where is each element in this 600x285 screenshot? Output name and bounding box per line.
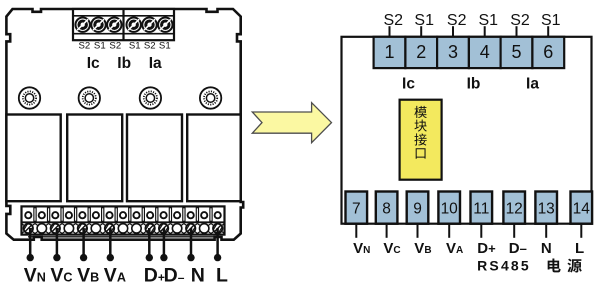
wire D- (left) <box>163 228 166 257</box>
case screw boss 4 <box>200 87 221 108</box>
svg-text:D+: D+ <box>477 240 496 257</box>
node dot N <box>187 254 194 261</box>
svg-text:S2: S2 <box>384 12 404 29</box>
svg-text:S1: S1 <box>479 12 499 29</box>
case screw boss 3 <box>140 87 161 108</box>
node dot VC <box>53 254 60 261</box>
svg-text:5: 5 <box>511 42 521 62</box>
terminal box 9 <box>407 192 429 224</box>
svg-text:S1: S1 <box>129 40 141 51</box>
terminal 3 lead <box>452 26 454 37</box>
terminal box 14 <box>571 192 593 224</box>
svg-text:3: 3 <box>448 42 458 62</box>
svg-text:S1: S1 <box>94 40 106 51</box>
strip cell 9 <box>130 208 144 234</box>
svg-text:4: 4 <box>480 42 490 62</box>
strip lower flange <box>28 236 218 238</box>
svg-text:S1: S1 <box>541 12 561 29</box>
case screw boss 1 <box>19 87 40 108</box>
terminal 1 lead <box>389 26 391 37</box>
terminal 2 lead <box>420 26 422 37</box>
wire VC (left) <box>56 228 59 257</box>
svg-text:S2: S2 <box>109 40 121 51</box>
CT screw terminal 6 <box>158 18 172 32</box>
terminal box 1 <box>374 37 406 68</box>
terminal box 6 <box>532 37 564 68</box>
case screw boss 2 <box>79 87 100 108</box>
terminal box 4 <box>469 37 501 68</box>
wiring diagram body <box>342 37 592 224</box>
svg-text:13: 13 <box>538 200 555 217</box>
strip cell 3 <box>49 208 63 234</box>
strip cell 1 <box>22 212 36 233</box>
svg-text:S2: S2 <box>447 12 467 29</box>
node dot D- <box>160 254 167 261</box>
terminal box 12 <box>503 192 525 224</box>
CT window 1 <box>6 115 60 202</box>
strip cell 15 <box>211 208 225 234</box>
strip cell 10 <box>143 208 157 234</box>
wire L (left) <box>216 228 219 257</box>
terminal 14 lead <box>580 224 582 238</box>
svg-text:D–: D– <box>509 240 527 257</box>
label 口 (module) <box>416 148 426 158</box>
bottom terminal strip outer <box>22 206 225 234</box>
strip cell 7 <box>103 208 117 234</box>
svg-text:6: 6 <box>543 42 553 62</box>
svg-text:1: 1 <box>384 42 394 62</box>
terminal 9 lead <box>417 224 419 238</box>
strip cell 14 <box>197 208 211 234</box>
CT window 3 <box>127 115 182 202</box>
CT terminal block <box>73 9 174 40</box>
svg-text:12: 12 <box>506 200 523 217</box>
svg-text:2: 2 <box>416 42 426 62</box>
wire VB (left) <box>82 228 85 257</box>
CT screw terminal 2 <box>91 18 105 32</box>
strip cell 11 <box>157 208 171 234</box>
strip cell 13 <box>184 208 198 234</box>
svg-text:S2: S2 <box>510 12 530 29</box>
svg-text:7: 7 <box>352 200 361 217</box>
terminal 5 lead <box>516 26 518 37</box>
svg-text:Ia: Ia <box>526 75 539 92</box>
svg-text:S2: S2 <box>144 40 156 51</box>
svg-text:10: 10 <box>441 200 459 217</box>
strip cell 6 <box>89 208 103 234</box>
strip cell 12 <box>170 208 184 234</box>
CT screw terminal 4 <box>127 18 141 32</box>
terminal box 2 <box>405 37 437 68</box>
terminal 11 lead <box>480 224 482 238</box>
node dot D+ <box>146 254 153 261</box>
terminal 10 lead <box>448 224 450 238</box>
label 接 (module) <box>414 133 426 145</box>
svg-text:Ic: Ic <box>87 55 100 72</box>
CT window 4 <box>187 115 241 202</box>
svg-text:8: 8 <box>382 200 391 217</box>
terminal box 7 <box>346 192 368 224</box>
node dot VB <box>80 254 87 261</box>
svg-text:S1: S1 <box>414 12 434 29</box>
terminal 12 lead <box>513 224 515 238</box>
svg-text:N: N <box>541 240 552 257</box>
terminal box 5 <box>501 37 533 68</box>
CT screw terminal 1 <box>76 18 90 32</box>
terminal box 3 <box>437 37 469 68</box>
svg-text:S2: S2 <box>79 40 91 51</box>
terminal 6 lead <box>547 26 549 37</box>
wire VA (left) <box>109 228 112 257</box>
CT screw terminal 3 <box>107 18 121 32</box>
strip cell 4 <box>62 208 76 234</box>
svg-text:L: L <box>216 265 228 285</box>
svg-text:11: 11 <box>473 200 489 217</box>
CT screw terminal 5 <box>142 18 156 32</box>
terminal box 10 <box>438 192 460 224</box>
svg-text:Ic: Ic <box>402 75 415 92</box>
svg-text:N: N <box>191 265 205 285</box>
node dot VN <box>27 254 34 261</box>
terminal box 8 <box>376 192 398 224</box>
label 电源 (power) <box>548 259 561 273</box>
meter case outline <box>6 9 243 240</box>
svg-text:RS485: RS485 <box>477 258 531 274</box>
terminal 13 lead <box>545 224 547 238</box>
svg-text:S1: S1 <box>159 40 171 51</box>
svg-text:9: 9 <box>413 200 422 217</box>
terminal 8 lead <box>386 224 388 238</box>
CT window 2 <box>67 115 122 202</box>
strip cell 2 <box>35 208 49 234</box>
svg-text:Ia: Ia <box>149 55 162 72</box>
wire VN (left) <box>29 228 32 257</box>
svg-text:Ib: Ib <box>117 55 131 72</box>
terminal box 13 <box>535 192 557 224</box>
node dot L <box>214 254 221 261</box>
svg-text:Ib: Ib <box>467 75 481 92</box>
svg-text:14: 14 <box>573 200 591 217</box>
label 块 (module) <box>414 120 426 132</box>
wire N (left) <box>190 228 193 257</box>
node dot VA <box>107 254 114 261</box>
strip cell 8 <box>116 208 130 234</box>
terminal box 11 <box>471 192 493 224</box>
module interface box <box>400 100 442 180</box>
terminal 7 lead <box>355 224 357 238</box>
label 模 (module) <box>414 106 426 118</box>
wire D+ (left) <box>148 228 151 257</box>
terminal 4 lead <box>484 26 486 37</box>
transition arrow <box>252 103 331 143</box>
svg-text:L: L <box>575 240 584 257</box>
strip cell 5 <box>76 208 90 234</box>
